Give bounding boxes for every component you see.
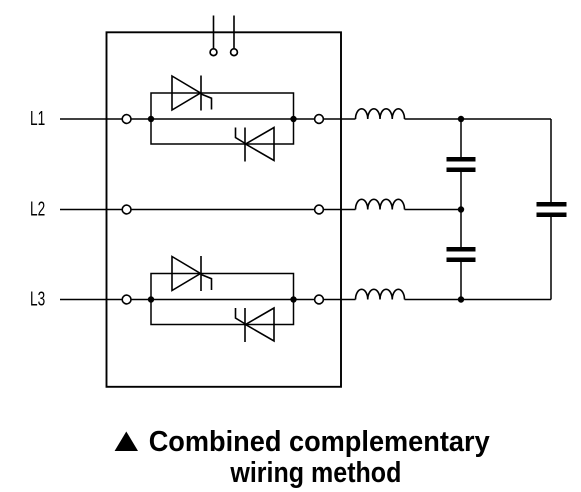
svg-text:L2: L2 <box>30 198 45 220</box>
svg-text:wiring method: wiring method <box>230 457 402 489</box>
svg-text:Combined complementary: Combined complementary <box>149 426 490 458</box>
svg-text:L1: L1 <box>30 108 45 130</box>
svg-text:L3: L3 <box>30 288 45 310</box>
